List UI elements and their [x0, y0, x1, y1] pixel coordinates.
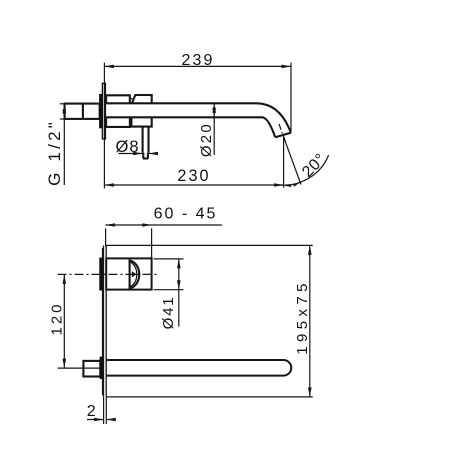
120 dimension line	[63, 274, 67, 368]
lever lens inner arc	[130, 262, 137, 287]
2mm extension lines below plate	[104, 397, 107, 424]
dimension 60-45 line	[105, 223, 222, 227]
handle boss behind plate	[100, 258, 102, 290]
handle body	[106, 258, 151, 289]
2mm dimension lines and arrows	[87, 418, 116, 422]
spout tube top edge with bend	[106, 103, 291, 133]
check valve pipe (o8)	[143, 127, 149, 159]
angle arc arrow at vertical leg	[283, 184, 291, 187]
spout tube bottom edge with bend	[106, 117, 275, 137]
svg-text:195x75: 195x75	[294, 279, 311, 355]
dimension 239 extension line right	[290, 63, 292, 131]
collar upper-right block with slanted edge	[132, 95, 152, 103]
svg-text:230: 230	[177, 167, 210, 185]
wall plate (edge view)	[104, 246, 107, 397]
collar upper-left block	[106, 95, 130, 103]
break mark connector	[130, 98, 134, 100]
svg-text:60 - 45: 60 - 45	[154, 206, 218, 223]
60-45 extension line right / handle face	[151, 228, 153, 258]
svg-text:Ø8: Ø8	[115, 138, 139, 156]
svg-text:239: 239	[182, 52, 215, 69]
spout outlet tip face	[275, 133, 291, 137]
wall plate (side view)	[102, 83, 105, 139]
inlet nut	[83, 361, 100, 377]
collar lower-left block	[106, 117, 130, 127]
svg-text:Ø41: Ø41	[160, 296, 177, 330]
inlet pipe G1/2 stub	[65, 104, 100, 119]
lever lens outer arc	[130, 261, 140, 289]
svg-text:Ø20: Ø20	[198, 122, 215, 157]
spout centerline	[58, 367, 104, 369]
spout bar (stadium)	[106, 360, 291, 376]
G 1/2 extension ticks	[60, 104, 67, 119]
195x75 top extension line	[106, 244, 313, 246]
195x75 bottom extension line	[106, 396, 313, 398]
lever pointer mark	[132, 271, 137, 277]
spout boss on plate	[100, 357, 102, 379]
outlet centerline (dash-dot)	[279, 124, 286, 142]
svg-text:2: 2	[87, 403, 96, 420]
G 1/2 dimension line	[63, 104, 67, 185]
svg-text:120: 120	[48, 301, 65, 335]
handle centerline (dash-dot)	[58, 273, 158, 275]
60-45 extension line left	[105, 228, 107, 246]
angle vertical leg	[283, 137, 285, 188]
dimension line 230	[104, 183, 283, 187]
angle slanted leg 20deg	[284, 137, 301, 185]
dimension line 239	[104, 65, 291, 69]
dimension 239 extension line left	[103, 63, 105, 189]
dimension o20 line	[212, 103, 216, 155]
svg-text:G 1/2": G 1/2"	[45, 119, 64, 186]
collar lower-right block	[131, 117, 151, 126]
angle arc	[279, 155, 328, 185]
o41 extension lines	[154, 259, 184, 290]
gasket (dark bar behind wall plate)	[100, 94, 103, 128]
dimension o8 lines and arrows	[119, 152, 159, 156]
angle arc arrow at slanted leg	[293, 181, 301, 187]
195x75 dimension line	[308, 245, 312, 397]
o41 dimension line	[177, 259, 181, 327]
gasket line behind plate	[102, 248, 104, 395]
